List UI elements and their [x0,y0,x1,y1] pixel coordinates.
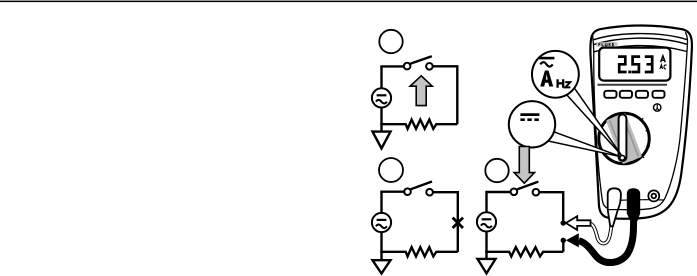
ground symbol [478,259,496,274]
dial knob [619,114,627,161]
black lead arrow [566,233,579,247]
button 1 [604,91,616,98]
rotary dial [599,113,649,163]
button 4 [653,91,665,98]
wire right upper to node [562,191,564,221]
dial knob index circle [620,155,625,160]
meter top ridge 1 [593,34,687,40]
wire left lower [380,232,382,252]
X break mark [453,218,463,228]
node label circle 2 [379,158,403,182]
wire left upper [380,192,382,213]
backlight button [654,104,661,111]
DC solid bar [520,113,539,116]
button 2 [620,91,632,98]
DC dashed bar [520,118,539,121]
display digit 5 [631,57,640,72]
common jack bullseye [648,190,659,201]
display AC annunciator [660,65,667,69]
black test lead cable [579,212,634,263]
FLUKE logo [597,42,618,47]
A-Hz overline [539,57,554,60]
meter top ridge 2 [594,38,688,44]
up arrow (insert) [410,76,432,106]
wire left lower [485,232,487,252]
meter body outline [590,26,692,219]
jack groove line [616,199,665,202]
wire top-right [539,191,563,193]
switch S2 right contact [426,189,433,196]
wire left upper [380,66,382,88]
A-Hz bubble [532,51,579,98]
dial gray range band [606,113,642,164]
ground stub [380,252,382,260]
switch S2 left contact [404,188,411,195]
wedge from A-Hz bubble to dial [567,88,622,155]
meter holster inner line [593,32,688,210]
wire top-right [433,191,458,193]
ground stub [485,252,487,259]
wire right lower from node [562,242,564,252]
white lead arrow [566,216,591,230]
display decimal point [628,71,631,74]
AC source V1 [372,88,391,107]
wire top-left [382,66,404,67]
ground symbol [373,260,391,273]
node label circle 1 [379,30,402,53]
wedge from DC bubble to dial [548,132,622,157]
white plug [608,188,621,226]
black plug [627,188,640,221]
node dot lower [561,238,566,243]
dial tick marks [641,118,650,158]
wire bottom with resistor R1 [380,120,457,129]
wire top-right [433,65,458,67]
LCD display [599,48,670,81]
node label circle 3 [485,159,508,182]
wire bottom with resistor R2 [380,247,458,256]
display digit 2 [618,57,627,72]
wire left lower [380,108,382,125]
wire bottom with resistor R3 [485,247,563,256]
wire right side [456,65,458,124]
switch S1 lever [410,56,432,64]
A-Hz letters Hz [558,79,564,87]
display bezel shadow line [598,84,668,86]
wire top-left [382,192,405,193]
switch S1 right contact [426,63,433,70]
node dot upper [561,220,566,225]
display A annunciator [661,56,666,62]
switch S3 lever [517,182,538,190]
wire top-left [487,192,511,193]
ground symbol [373,132,391,149]
wire left upper [485,192,487,212]
ground stub [380,124,382,131]
switch S3 right contact [533,189,540,196]
A-Hz tilde [540,62,552,66]
wire right side [457,191,459,252]
A-Hz letter A [540,71,553,87]
top border rule [0,1,697,2]
AC source V3 [477,212,496,231]
switch S1 left contact [404,63,411,70]
switch S2 lever [411,182,432,190]
down arrow (press) [514,147,534,184]
meter top ridge 3 [594,46,687,52]
DC bubble [509,101,555,147]
AC source V2 [372,213,391,232]
display digit 3 [645,57,652,72]
switch S3 left contact [511,189,518,196]
white test lead cable [591,224,612,244]
button 3 [636,91,648,98]
